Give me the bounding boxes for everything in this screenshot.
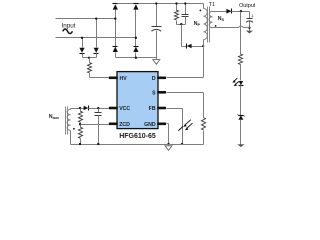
svg-text:HV: HV [120, 76, 128, 82]
wire secondary return [213, 26, 250, 28]
svg-text:Input: Input [62, 22, 76, 29]
wire clamp R bottom lead [176, 21, 178, 25]
wire clamp R top lead [176, 4, 178, 11]
wire bridge right leg [135, 10, 137, 47]
node output [240, 10, 242, 12]
resistor R-HV (startup) [87, 63, 91, 73]
node R-zcd2 rail [79, 143, 81, 145]
wire S pin right [167, 93, 204, 118]
winding Ns secondary [209, 11, 212, 28]
capacitor C-out polarity mark [252, 15, 254, 18]
zener ZD1 [238, 115, 245, 120]
node return / C-out [248, 27, 250, 29]
wire clamp C top lead [185, 4, 187, 15]
node FB rail [181, 143, 183, 145]
svg-text:VCC: VCC [119, 106, 130, 112]
wire D pin to drain [167, 47, 204, 78]
wire clamp C bottom lead [185, 17, 187, 25]
diode D2 (bridge top-right) [133, 4, 138, 10]
diode D1 (bridge top-left) [113, 4, 118, 10]
label Np [194, 21, 201, 27]
node DC+ / bulk cap [155, 2, 157, 4]
wire ZCD divider upper lead [80, 109, 82, 112]
label HFG610-65 [119, 133, 156, 140]
op-amp U1 HFG610-65 body [117, 72, 158, 129]
svg-text:NS: NS [218, 16, 225, 22]
pin ZCD stub [109, 123, 118, 126]
input label [62, 22, 76, 29]
svg-text:D: D [152, 76, 156, 82]
diode D3 (bridge bottom-left) [113, 47, 118, 53]
core aux [66, 107, 68, 135]
wire VCC cap bottom lead [98, 116, 100, 145]
wire aux bottom lead [70, 131, 72, 145]
node VCC cap top [97, 107, 99, 109]
svg-text:S: S [152, 90, 156, 96]
wire HV tap down [89, 58, 91, 63]
label T1 [209, 2, 215, 8]
wire clamp tap down [181, 25, 183, 47]
capacitor C-bulk [151, 27, 161, 32]
diode D-aux (VCC) [84, 106, 89, 111]
core T1 [208, 7, 210, 43]
svg-text:NP: NP [194, 21, 201, 27]
wire D3 anode down [115, 53, 117, 58]
node DC+ / clamp R [175, 2, 177, 4]
wire DC+ to primary [203, 4, 205, 9]
node bridge negative [135, 57, 137, 59]
wire primary to drain [203, 40, 205, 47]
ground secondary (zener) [237, 144, 244, 147]
resistor R-sense [201, 118, 205, 130]
capacitor C-vcc [95, 113, 102, 116]
pin label D [152, 76, 156, 82]
wire R-led to LED [240, 65, 242, 81]
svg-text:FB: FB [149, 106, 156, 112]
label Ns [218, 16, 225, 22]
AC source symbol [63, 29, 73, 34]
diode D5 (HV startup from N) [79, 48, 84, 54]
secondary phase dot [215, 25, 217, 27]
resistor R-zcd1 [78, 111, 82, 122]
node N / D5 tap [81, 37, 83, 39]
wire N to HV diode D5 [82, 38, 84, 48]
wire L to HV diode D6 [96, 19, 98, 48]
resistor R-led [238, 54, 242, 65]
svg-text:HFG610-65: HFG610-65 [119, 133, 156, 140]
wire ZCD to pin [81, 124, 109, 126]
wire R-sense to rail [203, 131, 205, 145]
wire input line N (bottom) [56, 37, 136, 39]
node GND rail [167, 143, 169, 145]
aux phase dot [73, 128, 75, 130]
capacitor C-out [246, 19, 253, 23]
svg-text:ZCD: ZCD [119, 122, 130, 128]
label Output [239, 3, 256, 9]
node clamp tap [180, 23, 182, 25]
wire primary ground rail [71, 144, 204, 146]
wire secondary top [213, 11, 227, 13]
diode D4 (bridge bottom-right) [133, 47, 138, 53]
pin label HV [120, 76, 128, 82]
resistor R-zcd2 [78, 127, 82, 138]
wire VCC cap top lead [98, 109, 100, 113]
wire zener to ground [240, 120, 242, 145]
wire D-aux to VCC pin [89, 108, 109, 110]
wire rectifier to output node [232, 11, 250, 13]
pin S stub [157, 91, 166, 94]
wire GND pin down [167, 124, 169, 145]
node C-vcc rail [97, 143, 99, 145]
resistor R-clamp [174, 10, 178, 20]
wire HV diode join [83, 57, 97, 59]
wire GND ground stub [168, 145, 170, 146]
wire clamp diode to drain [192, 46, 204, 48]
ground secondary (C-out) [246, 31, 253, 34]
wire HV resistor to pin [90, 73, 109, 78]
ground primary (bridge) [153, 60, 160, 65]
node drain [202, 45, 204, 47]
wire D4 anode down [135, 53, 137, 58]
wire bulk cap top lead [156, 4, 158, 27]
wire D5 cathode down [82, 54, 84, 58]
opto LED D-opto [239, 81, 244, 86]
diode D6 (HV startup from L) [94, 48, 99, 54]
wire R-zcd2 to rail [80, 139, 82, 145]
wire bridge bottom rail [116, 57, 157, 59]
pin GND stub [157, 123, 166, 126]
svg-text:Naux: Naux [49, 114, 60, 120]
primary phase dot [200, 10, 202, 12]
pin label VCC [119, 106, 130, 112]
pin FB stub [157, 107, 166, 110]
wire input line L (top) [56, 18, 116, 20]
node left leg / line L [114, 17, 116, 19]
pin D stub [157, 77, 166, 80]
winding Naux [67, 109, 70, 130]
wire D6 cathode down [96, 54, 98, 58]
ground primary (IC) [165, 146, 172, 151]
opto transistor Q-opto [178, 120, 192, 131]
diode D-out (rectifier) [226, 9, 231, 14]
wire DC+ top rail [116, 3, 204, 5]
wire clamp RC join [177, 24, 186, 26]
capacitor C-clamp [182, 15, 189, 17]
diode D-clamp [187, 44, 192, 49]
svg-text:GND: GND [144, 122, 156, 128]
wire FB pin right [167, 109, 183, 145]
node DC+ / clamp C [184, 2, 186, 4]
pin label S [152, 90, 156, 96]
wire ZCD tap [80, 123, 82, 128]
wire output to cap [249, 12, 251, 19]
wire LED to zener [240, 86, 242, 116]
node ZCD divider top [79, 107, 81, 109]
wire C-out bottom lead [249, 22, 251, 31]
wire aux top lead [71, 109, 84, 110]
pin VCC stub [109, 107, 118, 110]
opto LED emission arrows [232, 78, 238, 86]
pin label GND [144, 122, 156, 128]
wire clamp to diode [182, 46, 187, 48]
winding Np primary [204, 8, 208, 39]
node ZCD tap [79, 123, 81, 125]
pin label ZCD [119, 122, 130, 128]
label Naux [49, 114, 60, 120]
node right leg / line N [135, 37, 137, 39]
pin label FB [149, 106, 156, 112]
node L / D6 tap [95, 17, 97, 19]
node HV junction [88, 57, 90, 59]
pin HV stub [109, 77, 118, 80]
wire bulk cap bottom lead [156, 31, 158, 60]
svg-text:Output: Output [239, 3, 256, 9]
wire output divider top [240, 12, 242, 55]
wire bridge left leg [115, 10, 117, 47]
